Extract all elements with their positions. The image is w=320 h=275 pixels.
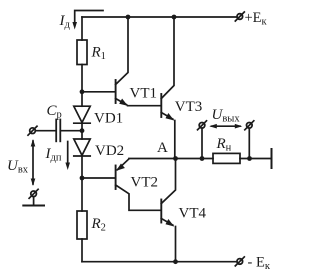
terminal output left [199,123,205,129]
node dot rail-VT1 collector [126,15,131,20]
terminal +Ek [237,14,243,20]
node dot input junction [80,128,85,133]
wire top +Ek rail [82,16,236,18]
current arrow Iд hook [75,11,103,24]
wire input to capacitor [35,130,55,132]
svg-text:Rн: Rн [216,136,232,154]
wire Rн to ground [240,158,271,160]
diode VD2 [74,139,90,155]
resistor R2 [77,211,87,239]
wire VD1 to VD2 [81,123,83,139]
node dot VT1 base junction [80,89,85,94]
terminal output right [247,123,253,129]
wire output left terminal down [201,128,203,158]
svg-text:VT1: VT1 [130,86,158,102]
node dot bottom rail [173,259,178,264]
svg-text:VT4: VT4 [179,206,207,222]
node A dot [173,156,178,161]
ground input [33,197,35,206]
svg-text:+Eк: +Eк [245,10,268,28]
node dot VT2 base junction [80,176,85,181]
svg-text:Cр: Cр [47,103,62,121]
wire VT4 emitter to bottom rail [175,227,177,262]
wire VT1 base [82,91,115,93]
node dot output right [247,156,252,161]
wire VT3 emitter to node A [174,121,176,159]
resistor Rн [213,153,240,163]
wire VT2 base [82,177,115,179]
voltage arrow Uвх [32,141,34,184]
svg-text:Iдп: Iдп [45,146,62,164]
terminal input lower [31,191,37,197]
wire output right terminal down [248,128,250,158]
svg-text:VT2: VT2 [131,175,159,191]
svg-text:A: A [157,140,168,156]
transistor VT3 [160,94,162,117]
svg-text:VD2: VD2 [95,143,124,159]
svg-text:R2: R2 [91,216,106,234]
wire VT1 emitter to VT3 base [128,105,161,107]
bottom -Ek rail [82,261,236,263]
voltage arrow Uвых [212,125,241,127]
wire R1 to VD1 [81,65,83,107]
svg-text:R1: R1 [91,45,106,63]
transistor VT4 [160,200,162,223]
wire capacitor to VD junction [61,130,82,132]
node dot rail-VT3 collector [172,15,177,20]
terminal -Ek [237,259,243,265]
ground right bar [271,149,273,168]
current arrow Iдп [67,142,69,164]
transistor VT2 [115,166,117,190]
svg-text:VD1: VD1 [94,111,123,127]
resistor R1 [77,40,87,65]
node A wire [129,158,213,160]
wire R1 branch to rail [81,17,83,40]
svg-text:Uвх: Uвх [7,158,29,176]
svg-text:- Eк: - Eк [248,255,271,273]
svg-text:Uвых: Uвых [212,107,241,125]
wire R2 to bottom rail [81,239,83,262]
terminal input upper [30,128,36,134]
svg-text:VT3: VT3 [175,99,203,115]
transistor VT1 [115,80,117,103]
wire VD2 to R2 [81,156,83,211]
svg-text:Iд: Iд [59,13,71,31]
capacitor Cр [55,120,57,142]
diode VD1 [74,106,90,122]
node dot output left [200,156,205,161]
